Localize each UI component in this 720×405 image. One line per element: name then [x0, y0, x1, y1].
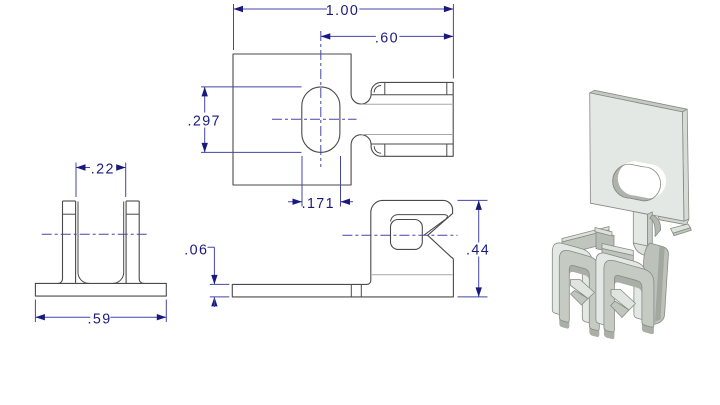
right hoop dark layer	[604, 267, 654, 339]
tab sub vertical left top	[384, 82, 386, 94]
side view outline	[232, 200, 453, 297]
dimension .171 stubs	[288, 201, 353, 203]
dimension .44 arrows	[476, 200, 482, 297]
right wall top edge	[126, 200, 139, 202]
left tang mid face	[571, 291, 589, 306]
dimension .44 extension lines	[458, 200, 488, 297]
svg-text:.44: .44	[466, 242, 490, 258]
flat pattern outline	[233, 54, 453, 185]
svg-text:.60: .60	[375, 30, 399, 46]
3D far flange light face	[671, 224, 691, 233]
left wall top edge	[63, 200, 76, 202]
3D plate right thickness face	[682, 109, 689, 221]
3D back bar mid face	[562, 230, 609, 255]
3D plate top thickness face	[590, 90, 688, 112]
U-gap left line with bottom fillet	[78, 202, 89, 284]
left wall inner edge	[75, 201, 77, 283]
dimension .59 extension lines	[35, 300, 166, 323]
3D slot end wall	[650, 215, 661, 237]
tab sub vertical right bottom	[446, 144, 448, 156]
dimension .297 line	[204, 87, 206, 152]
right hoop mid layer	[604, 260, 654, 332]
tab sub vertical right top	[446, 82, 448, 94]
dimension .22 line	[76, 167, 126, 169]
oblong hole	[302, 87, 340, 152]
3D right wall edge band	[655, 246, 665, 322]
dimension .60 arrows	[321, 33, 454, 39]
side bend tangent line (gray)	[371, 274, 453, 276]
bend tangent line bottom (gray)	[361, 134, 453, 136]
hole horizontal centerline	[272, 118, 357, 120]
svg-text:.59: .59	[88, 311, 112, 327]
inner hook line	[391, 215, 448, 236]
tab inner corner arc bottom	[374, 146, 381, 153]
side view centerline	[342, 234, 457, 236]
tab inner corner arc top	[374, 86, 381, 93]
dimension 1.00 line	[234, 8, 454, 10]
3D hole inner wall	[613, 164, 661, 201]
left wall fold line	[63, 213, 76, 215]
hole vertical centerline	[320, 31, 322, 167]
dimension .44 line	[478, 200, 480, 297]
3D back-left wall slab	[596, 231, 614, 253]
3D far flange edge face	[673, 228, 691, 236]
dimension .171 extension lines	[302, 156, 341, 207]
dimension .171 arrows	[293, 199, 351, 205]
left wall outer edge	[58, 201, 63, 283]
tab sub vertical left bottom	[384, 144, 386, 156]
svg-text:.22: .22	[91, 162, 115, 178]
U-gap right line with bottom fillet	[113, 202, 124, 284]
3D hole front outline	[613, 164, 661, 201]
dimension .297 arrows	[202, 87, 208, 152]
svg-text:.171: .171	[302, 196, 335, 212]
3D neck right side face	[648, 212, 653, 246]
3D left bend band light	[602, 244, 633, 256]
3D plate bottom edge sliver	[658, 216, 689, 225]
left hoop dark layer	[559, 257, 599, 337]
left tang light face	[571, 280, 595, 299]
dimension .22 arrows	[76, 164, 126, 170]
3D left bend band mid	[602, 249, 633, 263]
dimension 1.00 extension line left	[233, 4, 235, 50]
tab fold line bottom	[371, 143, 453, 145]
dimension .59 arrows	[35, 314, 166, 320]
rounded square slot	[391, 220, 423, 250]
bend tick line 2	[360, 284, 362, 297]
dimension .297 extension lines	[201, 87, 302, 152]
bend tangent line top (gray)	[361, 103, 453, 105]
dimension .06 arrows	[211, 275, 217, 307]
svg-text:1.00: 1.00	[326, 3, 359, 19]
right hoop light layer	[596, 253, 646, 325]
3D back bar light band	[562, 227, 609, 243]
3D neck front face	[633, 212, 647, 247]
dimension .59 line	[35, 316, 166, 318]
dimension 1.00 arrows	[234, 6, 454, 12]
dimension .06 lower stub	[213, 297, 215, 307]
dimension .06 extension lines	[210, 284, 230, 297]
base plate	[35, 283, 166, 296]
right tang mid face	[611, 301, 630, 318]
left view centerline	[42, 233, 148, 235]
right wall inner edge	[125, 201, 127, 283]
left hoop light layer	[552, 243, 592, 323]
left hoop mid layer	[559, 250, 599, 330]
right wall fold line	[126, 213, 139, 215]
tab fold line top	[371, 94, 453, 96]
right wall outer edge	[139, 201, 144, 283]
right tang light face	[611, 290, 636, 311]
svg-text:.06: .06	[184, 243, 208, 259]
dimension 1.00/.60 shared extension line right	[452, 4, 454, 79]
3D hole see-through	[618, 161, 666, 198]
dimension .22 extension lines	[76, 163, 126, 198]
3D back-left wall light band	[595, 228, 612, 237]
dimension .60 line	[321, 35, 454, 37]
3D plate front face	[590, 93, 684, 221]
dimension .06 leader	[208, 247, 215, 284]
bend tick line 1	[350, 284, 352, 297]
3D right wall slab	[644, 243, 669, 325]
svg-text:.297: .297	[187, 114, 220, 130]
3D right bend light band	[633, 243, 661, 259]
